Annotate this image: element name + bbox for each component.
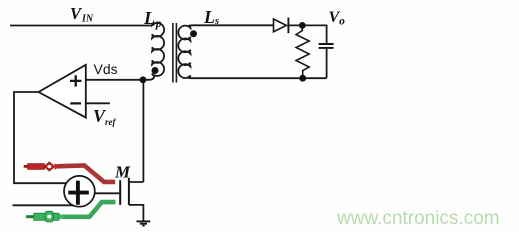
transistor M (MOSFET) <box>120 178 143 205</box>
diode D1 <box>274 18 289 34</box>
wire MOSFET source to ground <box>129 205 144 222</box>
capacitor output filter plates <box>319 44 334 48</box>
wire green probe to source <box>62 202 116 217</box>
driver source circle with plus <box>64 176 95 207</box>
polarity dot secondary <box>190 30 197 37</box>
wire source return stub <box>13 204 76 206</box>
wire red probe to gate <box>57 165 115 182</box>
wire capacitor bottom lead <box>326 48 328 78</box>
wire inverting input stub (Vref) <box>86 102 110 104</box>
probe clip green <box>26 211 65 222</box>
inductor Ls (transformer secondary winding) <box>178 25 192 78</box>
transformer core <box>173 23 177 83</box>
node output junction after diode <box>299 22 306 29</box>
svg-text:M: M <box>114 163 131 182</box>
resistor load zigzag <box>296 28 309 76</box>
wire gate lead <box>95 192 120 194</box>
wire secondary top to diode anode <box>193 24 274 26</box>
node bottom rail junction <box>299 75 306 82</box>
inductor Lp (transformer primary winding) <box>150 23 165 80</box>
wire diode cathode to output corner and down to capacitor <box>289 25 326 44</box>
wire Vds net: primary bottom to op-amp + input <box>86 79 150 81</box>
wire op-amp output to driver circle <box>14 92 67 183</box>
ground <box>137 221 151 225</box>
wire Vin input rail <box>10 25 151 27</box>
wire drain vertical (primary bottom to MOSFET drain) <box>142 80 144 182</box>
wire secondary bottom rail <box>193 77 327 79</box>
svg-text:Vds: Vds <box>94 61 118 77</box>
svg-text:www.cntronics.com: www.cntronics.com <box>336 208 500 229</box>
node junction primary bottom / drain <box>140 76 147 83</box>
op-amp U1 <box>39 65 86 118</box>
probe clip red <box>24 162 61 171</box>
polarity dot primary <box>152 67 159 74</box>
